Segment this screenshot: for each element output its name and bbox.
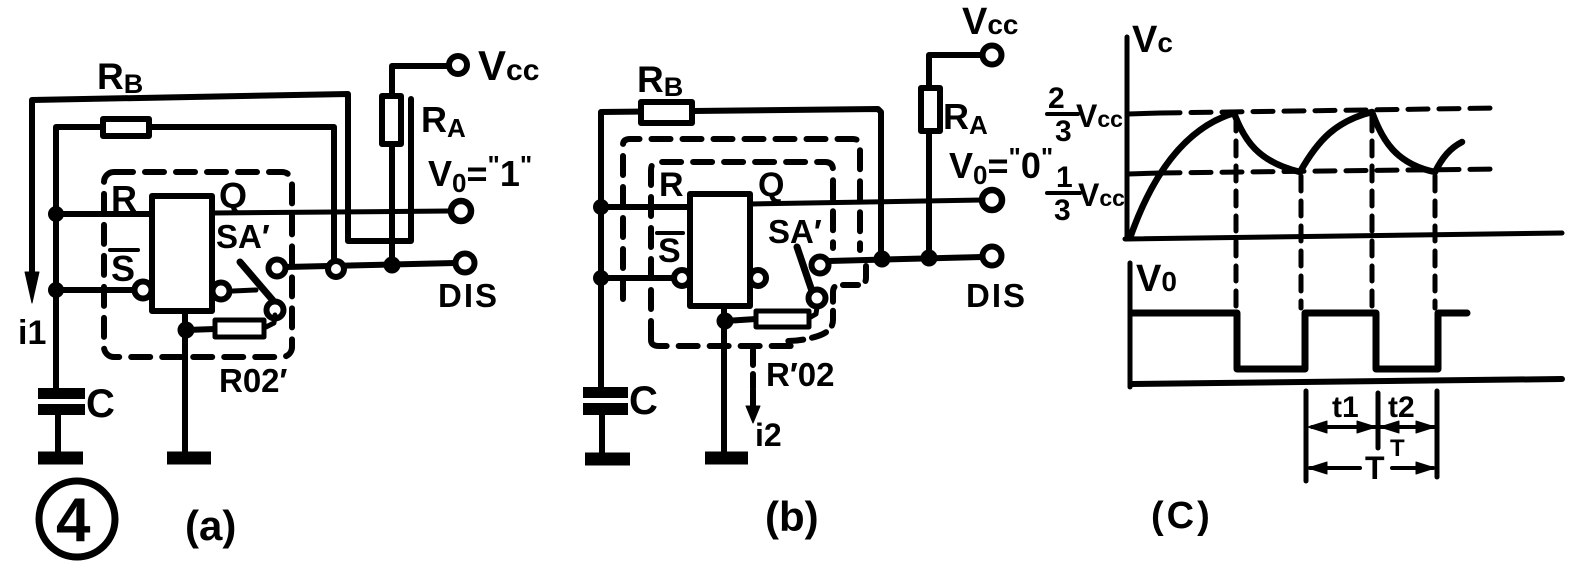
marker line middle [1376,393,1381,448]
svg-text:Vcc: Vcc [1078,177,1125,213]
junction node RA on DIS (b) [921,250,938,267]
svg-text:V0="1": V0="1" [428,150,532,198]
svg-text:2: 2 [1048,82,1065,115]
svg-text:Q: Q [758,166,784,204]
svg-text:Q: Q [219,175,247,216]
arrow row T [1310,466,1433,470]
svg-text:SA′: SA′ [768,213,822,250]
t axis [1125,233,1562,239]
capacitor C plate2 (b) [583,403,628,415]
current arrow i1 head (a) [25,272,39,303]
dashed level 2/3 Vcc [1128,113,1160,114]
svg-text:T: T [1365,450,1385,486]
wire capacitor to ground (b) [599,415,605,453]
wire R input (a) [56,211,152,217]
resistor RA (b) [921,88,940,131]
svg-text:i2: i2 [755,417,782,453]
dashed current path i2 (b) [750,350,756,388]
svg-text:1: 1 [1056,161,1073,194]
svg-text:DIS: DIS [438,277,499,314]
svg-text:t1: t1 [1332,391,1359,424]
junction node DIS (a) [384,257,401,274]
switch SA' pivot contact (b) [809,290,826,307]
svg-text:RA: RA [943,96,988,140]
V0 axis [1128,263,1133,387]
svg-text:t2: t2 [1388,391,1415,424]
wire outer loop (b) [601,109,881,388]
svg-text:DIS: DIS [966,277,1027,314]
V0 bottom axis [1132,379,1562,384]
wire FF bottom to ground (a) [182,311,188,452]
svg-text:R: R [659,166,684,204]
wire capacitor to ground (a) [55,415,61,452]
marker line left t1 [1304,391,1309,481]
resistor R02 (b) [756,311,809,327]
flip-flop U1 (b) [690,194,750,306]
junction node R (b) [593,199,609,215]
ground under capacitor (a) [38,452,83,465]
wire RA to DIS node (b) [926,131,932,258]
switch SA' blade (b) [797,247,813,294]
resistor R02' (a) [215,320,264,337]
dashed vertical at first trough [1299,176,1304,308]
switch SA' top contact (a) [269,260,286,277]
svg-text:3: 3 [1055,115,1072,148]
ground under capacitor (b) [585,453,630,466]
pin circle on DIS wire (a) [328,261,344,277]
wire to resistor R02' (a) [186,329,215,330]
inverting bubble Q-bar (b) [750,270,766,286]
overbar of S (a) [110,248,138,252]
junction node R (a) [48,206,64,222]
svg-text:Vcc: Vcc [962,1,1019,43]
capacitor C plate2 (a) [38,404,85,415]
terminal Vcc (b) [983,46,1002,65]
svg-text:(b): (b) [765,493,819,540]
terminal Vcc (a) [449,56,467,74]
wire RA to DIS node (a) [389,144,395,265]
dashed control link to switch (a) [233,290,256,291]
capacitor C plate1 (b) [583,387,628,398]
svg-text:V0="0": V0="0" [949,142,1053,190]
inverting bubble S input (a) [135,282,152,299]
dashed vertical at first peak [1234,116,1239,308]
ground under flip-flop (b) [705,452,748,465]
wire RB net (a) [56,127,334,388]
wire FF bottom to ground (b) [721,306,727,452]
svg-text:RA: RA [421,99,466,143]
svg-text:(C): (C) [1151,495,1213,537]
inverting bubble Q-bar (a) [213,283,230,300]
svg-text:R02′: R02′ [219,362,288,399]
wire outer loop i1 path (a) [32,94,411,287]
ground under flip-flop (a) [167,452,211,465]
junction node S (a) [48,282,64,298]
arrow row t1 t2 [1312,425,1434,429]
dashed vertical at second peak [1370,116,1375,308]
current arrow i2 (b) [750,390,756,410]
svg-text:3: 3 [1054,194,1071,227]
wire Vcc to RA (a) [392,66,448,96]
overbar of S (b) [657,231,683,235]
svg-text:SA′: SA′ [216,218,270,255]
switch SA' pivot contact (a) [267,302,284,319]
svg-text:RB: RB [97,56,143,99]
svg-text:C: C [629,379,658,423]
Vc waveform curve [1130,112,1462,238]
flip-flop U1 (a) [152,196,212,311]
terminal V0 (b) [982,190,1002,210]
terminal V0 (a) [451,201,471,221]
IC dashed box (b) [651,162,833,346]
switch SA' top contact (b) [812,257,829,274]
capacitor C plate1 (a) [38,388,85,399]
svg-text:4: 4 [56,486,91,555]
wire DIS line (b) [829,257,982,261]
junction node outer loop on DIS (b) [874,251,891,268]
svg-text:T: T [1390,435,1405,462]
junction node R02 (a) [178,322,195,339]
svg-text:V0: V0 [1136,258,1177,300]
svg-text:Vcc: Vcc [1076,98,1123,134]
svg-text:Vc: Vc [1132,19,1173,61]
wire S input (b) [601,275,674,281]
svg-text:i1: i1 [18,314,46,352]
Vc axis [1125,37,1130,239]
inverting bubble S input (b) [674,270,690,286]
resistor RA (a) [382,96,401,144]
dashed path curl to switch (b) [788,266,866,341]
svg-text:Vcc: Vcc [478,42,539,89]
outer dashed discharge path (b) [623,139,860,299]
wire to resistor R02 (b) [725,319,756,321]
IC dashed box (a) [104,172,292,357]
svg-text:S: S [111,248,135,289]
terminal DIS (b) [983,247,1002,266]
dashed level 1/3 Vcc [1128,173,1160,174]
svg-text:S: S [658,232,681,270]
wire R input (b) [601,204,690,210]
wire Q output to V0 terminal (b) [750,200,982,204]
svg-text:RB: RB [637,59,683,102]
wire S input (a) [56,287,135,293]
dashed vertical at second trough [1433,176,1438,308]
wire DIS line (a) [286,263,455,267]
wire Vcc to RA (b) [929,55,981,88]
wire Q output to V0 terminal (a) [212,211,449,213]
svg-text:(a): (a) [185,502,236,549]
wire R02 to switch pivot (b) [809,307,817,318]
junction node R02 (b) [717,313,734,330]
terminal DIS (a) [456,254,475,273]
figure number badge 4 [39,481,115,557]
resistor RB (a) [103,119,149,136]
switch SA' blade (a) [240,262,276,304]
svg-text:R′02: R′02 [766,356,834,393]
V0 square waveform [1131,313,1467,369]
svg-text:C: C [86,382,115,426]
junction node S (b) [593,270,609,286]
resistor RB (b) [641,102,692,123]
marker line right t2 [1435,391,1440,477]
wire R02' to switch pivot (a) [264,315,275,328]
